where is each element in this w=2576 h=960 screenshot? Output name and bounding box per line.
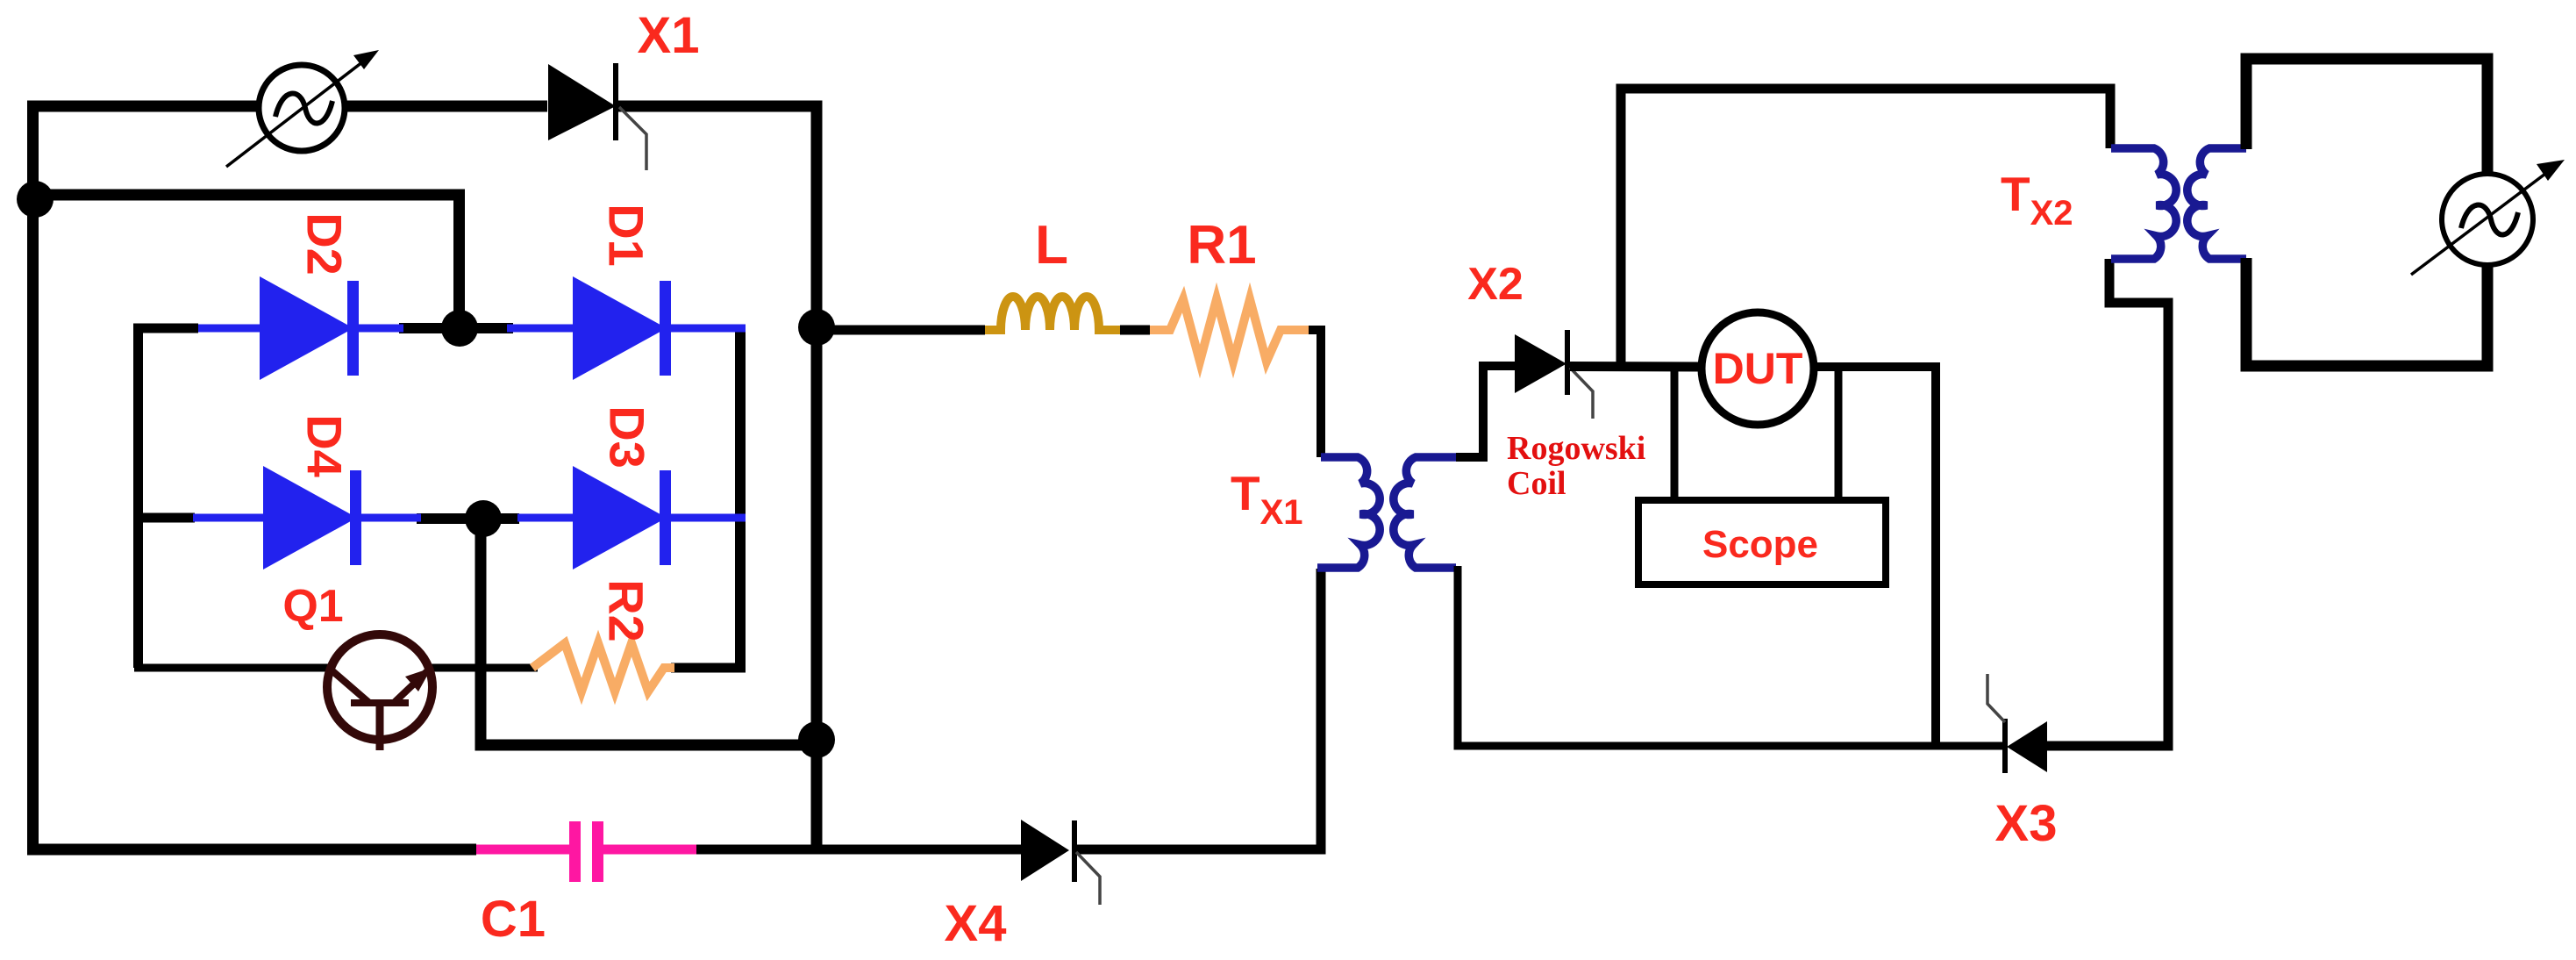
- Scope box: [1638, 500, 1886, 584]
- wire node stub D2-D1: [399, 323, 513, 333]
- svg-text:Scope: Scope: [1702, 523, 1818, 566]
- svg-text:Rogowski: Rogowski: [1507, 430, 1645, 467]
- wire bridge stub mid: [133, 513, 195, 523]
- wire bridge right vertical: [735, 328, 746, 668]
- capacitor C1: [476, 821, 696, 882]
- thyristor X2: [1515, 330, 1593, 419]
- wire DUT right to scope: [1835, 367, 1843, 500]
- transformer TX2 primary: [2111, 148, 2176, 259]
- AC source right: [2411, 160, 2565, 275]
- svg-text:X4: X4: [945, 895, 1007, 952]
- transformer TX1 primary: [1317, 457, 1380, 568]
- wire R2 right to bridge vertical: [671, 663, 746, 673]
- wire right AC loop: [2246, 59, 2487, 366]
- wire Q1 base row: [139, 663, 334, 669]
- node dot D4-D3: [465, 500, 502, 537]
- diode D2: [198, 276, 403, 380]
- svg-text:Coil: Coil: [1507, 465, 1566, 502]
- wire node stub D4-D3: [417, 513, 519, 524]
- wire DUT left to scope: [1671, 367, 1679, 500]
- svg-text:D3: D3: [600, 405, 655, 469]
- wire TX1 secondary bottom down to X3 row: [1458, 566, 2002, 746]
- svg-text:R1: R1: [1187, 215, 1256, 276]
- resistor R2: [532, 643, 674, 691]
- svg-text:X1: X1: [638, 7, 700, 64]
- svg-text:X2: X2: [1467, 259, 1523, 310]
- transistor Q1: [327, 634, 432, 750]
- resistor R1: [1150, 299, 1309, 362]
- svg-text:Q1: Q1: [282, 581, 343, 632]
- wire second row: [32, 195, 460, 328]
- node dot right bottom: [798, 721, 835, 758]
- AC source left: [226, 50, 379, 167]
- wire X2 cathode to DUT: [1570, 362, 1702, 372]
- wire L R1 row: [822, 326, 985, 335]
- svg-text:D4: D4: [297, 414, 353, 477]
- svg-text:D2: D2: [297, 212, 353, 276]
- node dot right top: [798, 309, 835, 346]
- svg-text:D1: D1: [599, 204, 654, 267]
- wire bridge left vertical: [133, 324, 143, 668]
- svg-text:R2: R2: [599, 579, 654, 642]
- svg-text:L: L: [1035, 215, 1068, 276]
- thyristor X4: [1021, 820, 1100, 905]
- wire top row left loop: [33, 106, 548, 849]
- wire bridge stub top: [133, 324, 198, 333]
- transformer TX2 secondary: [2187, 148, 2246, 259]
- thyristor X3: [1987, 674, 2047, 773]
- wire top rail TX2 primary loop: [1621, 89, 2110, 366]
- wire X4 to TX1 primary bottom: [1077, 569, 1321, 849]
- diode D3: [517, 466, 746, 570]
- svg-text:DUT: DUT: [1713, 344, 1803, 393]
- wire X1 cathode to right corner and down: [617, 106, 817, 849]
- svg-text:X3: X3: [1995, 795, 2058, 852]
- wire X3 right to TX2 primary bottom: [2047, 259, 2168, 746]
- wire TX1 secondary top to X2: [1456, 366, 1515, 457]
- diode D1: [507, 276, 746, 380]
- wire node2 down and right to junction: [481, 519, 817, 745]
- wire Q1 emitter row: [430, 664, 538, 672]
- wire bottom row C1 to X4: [696, 845, 1021, 855]
- wire DUT right row: [1812, 367, 1936, 746]
- wire bottom row left: [27, 844, 476, 856]
- node dot D2-D1: [441, 310, 478, 347]
- thyristor X1: [548, 63, 646, 170]
- svg-text:C1: C1: [481, 891, 546, 948]
- diode D4: [193, 466, 421, 570]
- inductor L: [985, 297, 1120, 330]
- transformer TX1 secondary: [1394, 457, 1456, 568]
- DUT circle: [1702, 312, 1814, 425]
- wire between L and R1: [1120, 326, 1150, 335]
- node dot left: [17, 181, 54, 218]
- wire R1 to TX1 primary top: [1309, 330, 1321, 457]
